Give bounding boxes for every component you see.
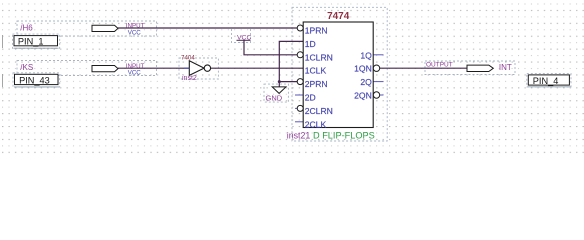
svg-text:1CLRN: 1CLRN <box>305 52 333 62</box>
svg-text:/KS: /KS <box>20 63 33 72</box>
svg-text:2D: 2D <box>305 93 316 103</box>
svg-text:OUTPUT: OUTPUT <box>426 62 453 69</box>
svg-text:inst2: inst2 <box>182 75 197 82</box>
svg-text:VCC: VCC <box>237 34 251 41</box>
svg-text:1Q: 1Q <box>360 50 372 60</box>
svg-text:1QN: 1QN <box>354 64 372 74</box>
svg-text:1CLK: 1CLK <box>305 66 327 76</box>
svg-text:PIN_1: PIN_1 <box>18 36 44 46</box>
svg-text:2PRN: 2PRN <box>305 79 328 89</box>
svg-text:PIN_43: PIN_43 <box>19 75 50 85</box>
svg-text:PIN_4: PIN_4 <box>533 76 559 86</box>
svg-text:D FLIP-FLOPS: D FLIP-FLOPS <box>313 131 375 141</box>
svg-text:inst21: inst21 <box>287 131 311 141</box>
svg-text:VCC: VCC <box>128 70 142 77</box>
svg-text:2CLRN: 2CLRN <box>305 106 333 116</box>
svg-text:INT: INT <box>499 63 512 72</box>
svg-text:2QN: 2QN <box>354 91 372 101</box>
svg-text:1D: 1D <box>305 39 316 49</box>
svg-text:7404: 7404 <box>181 54 195 61</box>
svg-text:2Q: 2Q <box>360 77 372 87</box>
svg-text:/H6: /H6 <box>20 23 33 32</box>
svg-text:7474: 7474 <box>327 11 350 22</box>
svg-text:2CLK: 2CLK <box>305 119 327 129</box>
svg-text:VCC: VCC <box>128 29 142 36</box>
svg-text:1PRN: 1PRN <box>305 26 328 36</box>
svg-text:GND: GND <box>266 93 283 102</box>
